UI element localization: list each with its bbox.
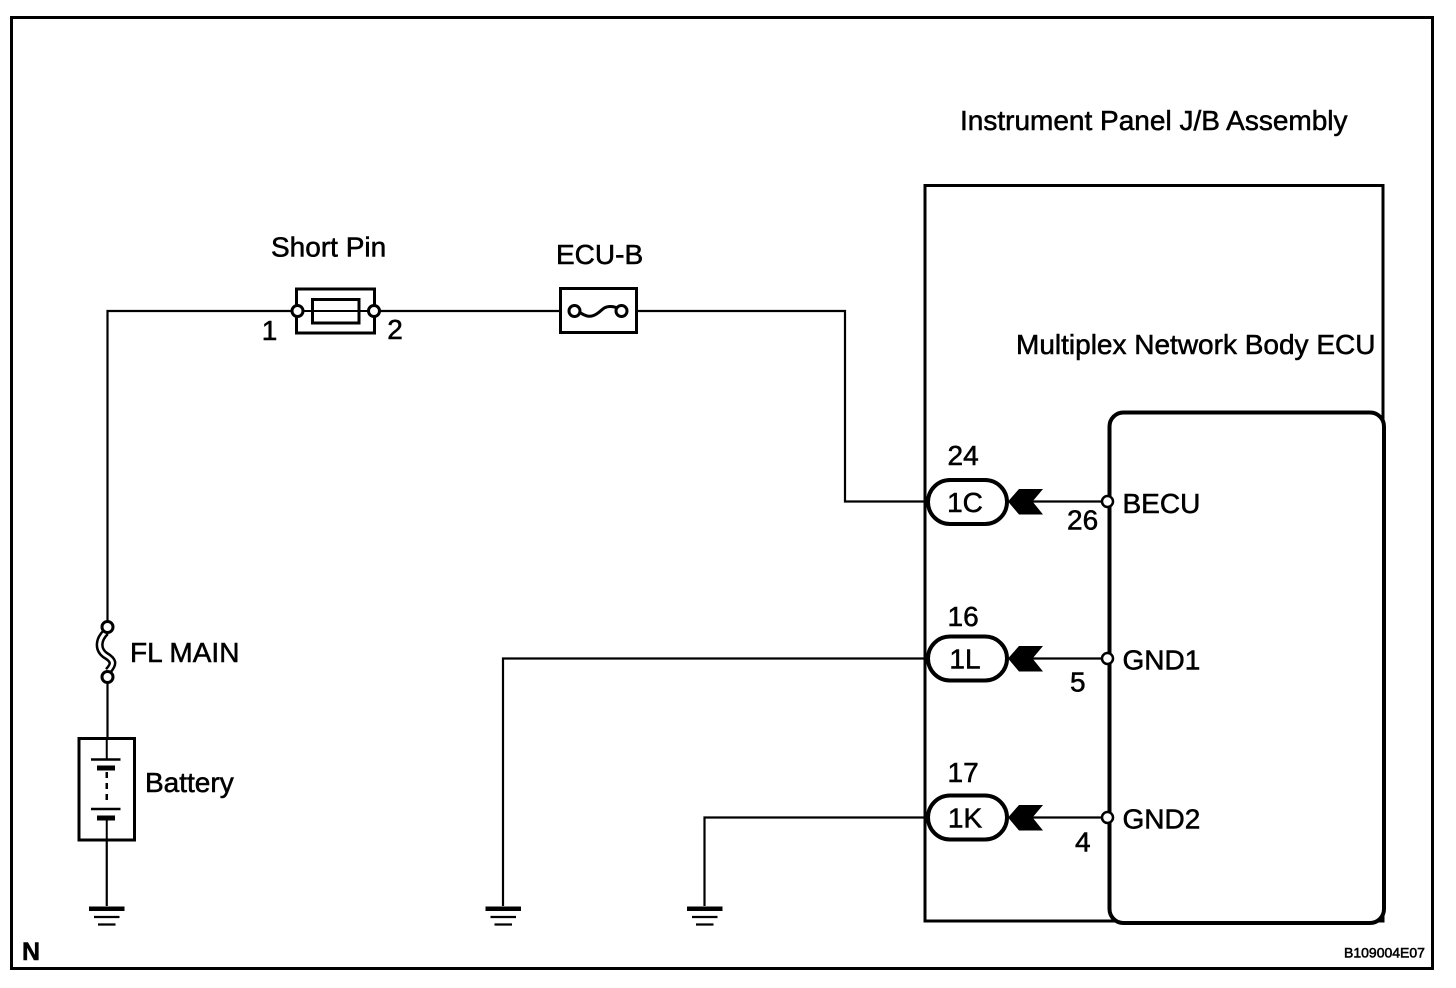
ground (GND2) bbox=[687, 907, 723, 925]
fusible link FL MAIN bbox=[100, 622, 113, 683]
svg-text:GND1: GND1 bbox=[1123, 645, 1201, 676]
svg-text:4: 4 bbox=[1075, 827, 1091, 858]
wire bbox=[375, 310, 560, 312]
svg-text:FL MAIN: FL MAIN bbox=[130, 637, 239, 668]
pin BECU bbox=[1102, 496, 1113, 507]
svg-text:24: 24 bbox=[948, 440, 979, 471]
svg-text:Battery: Battery bbox=[145, 767, 234, 798]
svg-text:ECU-B: ECU-B bbox=[556, 239, 643, 270]
multiplex network body ECU box bbox=[1110, 413, 1385, 924]
svg-text:GND2: GND2 bbox=[1123, 804, 1201, 835]
svg-text:2: 2 bbox=[387, 314, 403, 345]
svg-text:Multiplex Network Body ECU: Multiplex Network Body ECU bbox=[1016, 329, 1375, 360]
wire bbox=[1033, 816, 1103, 818]
connector 1K bbox=[928, 796, 1007, 840]
connector 1L bbox=[928, 637, 1007, 681]
wire bbox=[1033, 500, 1103, 502]
fuse ECU-B bbox=[561, 289, 637, 333]
short pin bbox=[292, 289, 380, 333]
svg-text:5: 5 bbox=[1070, 667, 1086, 698]
svg-text:16: 16 bbox=[948, 601, 979, 632]
pin GND2 bbox=[1102, 812, 1113, 823]
svg-text:Instrument Panel J/B Assembly: Instrument Panel J/B Assembly bbox=[960, 105, 1348, 136]
svg-text:1C: 1C bbox=[947, 487, 983, 518]
ground (battery) bbox=[89, 907, 125, 925]
arrow (GND1 to 1L) bbox=[1008, 646, 1043, 672]
svg-text:17: 17 bbox=[948, 757, 979, 788]
wire bbox=[106, 820, 108, 906]
svg-text:1: 1 bbox=[262, 315, 278, 346]
ground (GND1) bbox=[486, 907, 522, 925]
wire bbox=[705, 818, 927, 907]
connector 1C bbox=[928, 480, 1007, 524]
junction block box bbox=[925, 186, 1383, 922]
svg-text:1L: 1L bbox=[949, 644, 980, 675]
wire bbox=[1033, 657, 1103, 659]
svg-text:26: 26 bbox=[1067, 505, 1098, 536]
arrow (GND2 to 1K) bbox=[1008, 805, 1043, 831]
arrow (BECU to 1C) bbox=[1008, 489, 1043, 515]
svg-text:1K: 1K bbox=[948, 803, 983, 834]
pin GND1 bbox=[1102, 653, 1113, 664]
battery bbox=[79, 739, 135, 841]
wire bbox=[503, 659, 926, 907]
wire bbox=[637, 311, 926, 502]
svg-text:Short Pin: Short Pin bbox=[271, 232, 386, 263]
wire bbox=[106, 682, 108, 760]
svg-text:B109004E07: B109004E07 bbox=[1344, 945, 1425, 961]
wire bbox=[108, 311, 297, 622]
svg-text:N: N bbox=[22, 938, 40, 966]
svg-text:BECU: BECU bbox=[1123, 488, 1201, 519]
